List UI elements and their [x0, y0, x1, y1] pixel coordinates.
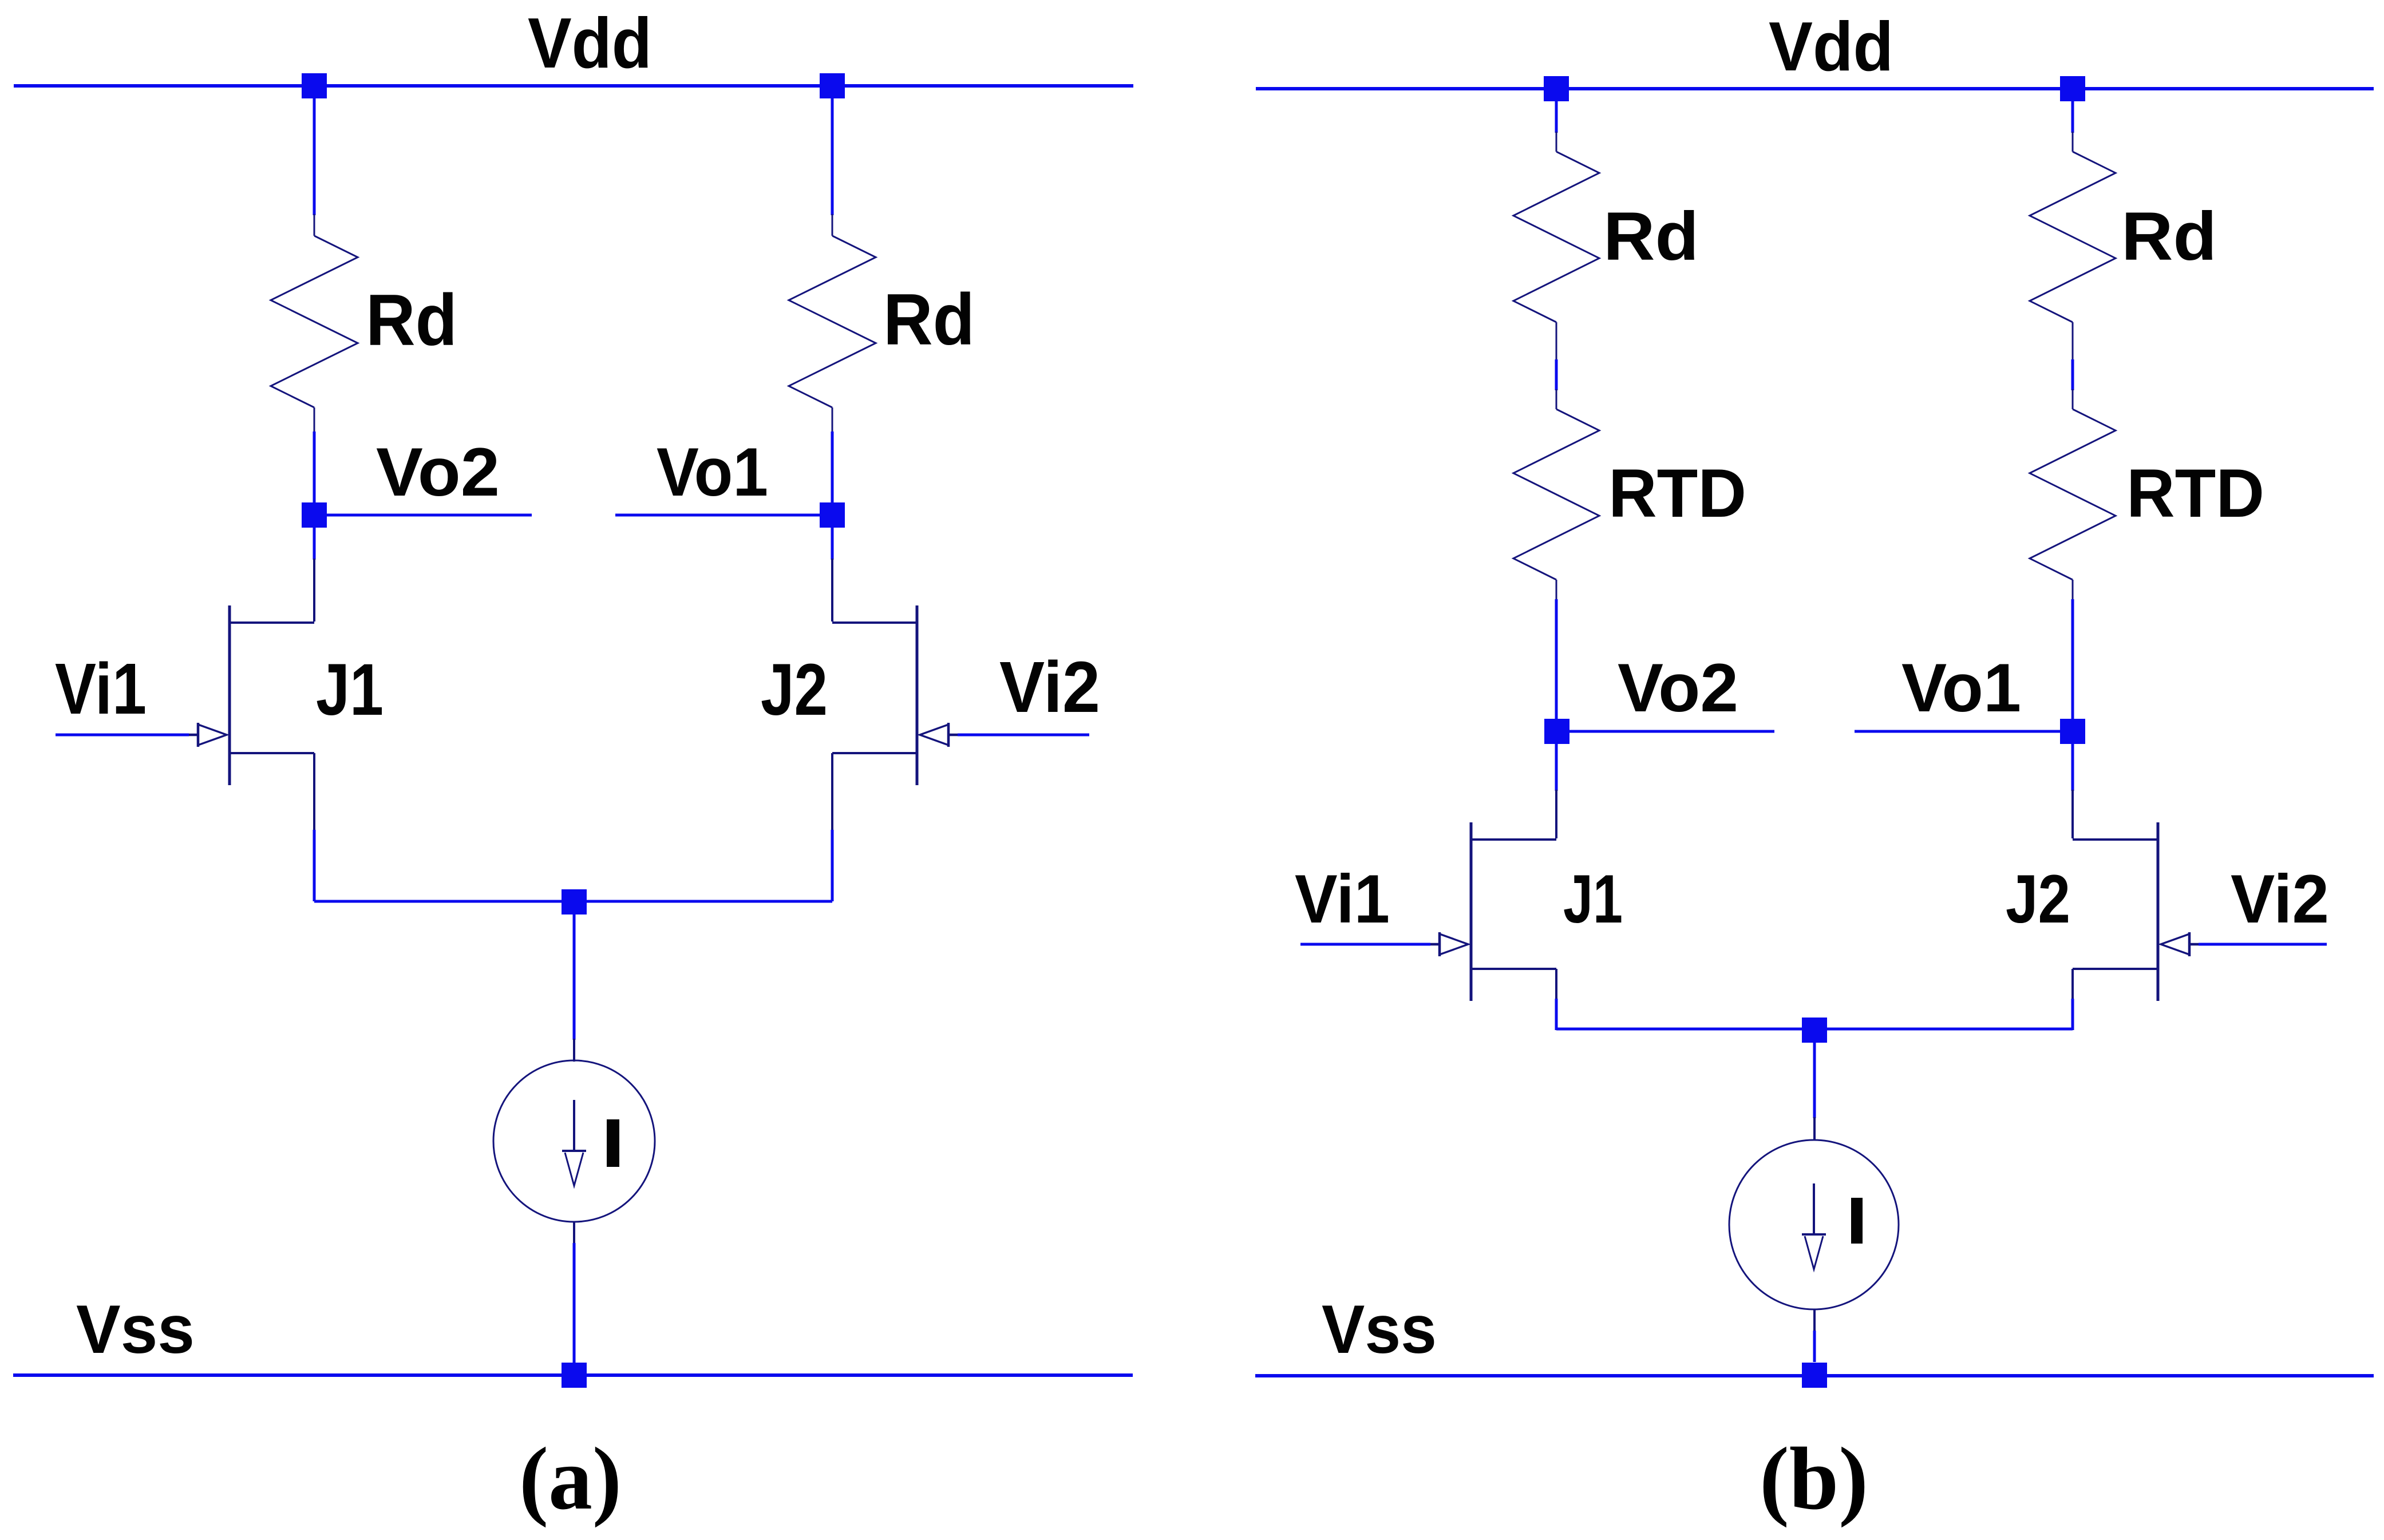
node Vo1 (b) — [2060, 719, 2085, 744]
source stub — [832, 752, 917, 754]
wire source J1 (a) — [313, 753, 315, 831]
node Vdd right (b) — [2060, 76, 2085, 101]
gate arrow — [198, 725, 227, 745]
svg-text:Vi1: Vi1 — [55, 648, 147, 729]
svg-text:Vss: Vss — [76, 1291, 195, 1368]
wire drain J1 (a) — [313, 528, 316, 560]
svg-text:Vdd: Vdd — [1769, 7, 1893, 85]
resistor Rd left (b) — [1556, 132, 1557, 152]
wire Vo2 stub (a) — [327, 514, 532, 517]
channel bar — [1470, 822, 1473, 1001]
wire — [831, 431, 834, 503]
wire — [573, 1222, 575, 1244]
wire — [1813, 1043, 1816, 1118]
wire drain J2 (a) — [831, 528, 834, 560]
node common source (a) — [562, 889, 587, 915]
svg-text:Vo1: Vo1 — [657, 434, 768, 510]
svg-text:RTD: RTD — [1608, 455, 1746, 532]
svg-text:Rd: Rd — [2121, 198, 2217, 275]
Vdd rail (a) — [14, 84, 1133, 88]
wire source J2 (b) — [2071, 969, 2074, 1000]
svg-text:J1: J1 — [316, 649, 384, 731]
svg-text:Vi2: Vi2 — [999, 647, 1100, 727]
wire — [2071, 359, 2074, 390]
drain stub — [2073, 838, 2158, 841]
drain stub — [832, 621, 917, 624]
wire common source (a) — [314, 900, 832, 903]
wire — [2071, 101, 2074, 133]
gate lead — [1430, 943, 1440, 946]
channel bar — [228, 605, 231, 785]
wire — [313, 431, 316, 503]
svg-text:(b): (b) — [1760, 1429, 1868, 1528]
svg-text:J1: J1 — [1563, 861, 1623, 937]
svg-text:(a): (a) — [519, 1429, 622, 1528]
wire — [313, 98, 316, 215]
wire — [2071, 599, 2074, 719]
wire — [573, 915, 576, 1040]
svg-text:Vss: Vss — [1322, 1291, 1437, 1368]
node Vo2 (b) — [1544, 719, 1569, 744]
svg-text:Vdd: Vdd — [528, 4, 652, 83]
resistor Rd right (b) — [2072, 132, 2074, 152]
svg-text:Vi2: Vi2 — [2231, 861, 2329, 937]
label I (b) — [1851, 1198, 1863, 1244]
gate arrow — [1440, 934, 1468, 955]
current source arrow — [573, 1100, 575, 1151]
gate arrow — [920, 725, 948, 745]
current source circle — [1729, 1140, 1899, 1309]
channel bar — [916, 605, 919, 785]
Vdd rail (b) — [1256, 87, 2374, 90]
wire drain J1 (b) — [1555, 744, 1558, 791]
node Vdd-Rd right (a) — [820, 73, 845, 98]
wire drain J2 (b) — [2071, 744, 2074, 791]
svg-text:Vo2: Vo2 — [376, 434, 500, 510]
svg-text:Rd: Rd — [1603, 198, 1699, 275]
Vss rail (a) — [13, 1373, 1133, 1377]
current source circle — [493, 1060, 655, 1222]
wire Vo2 stub (b) — [1569, 730, 1774, 733]
node Vss (a) — [562, 1363, 587, 1388]
node Vss (b) — [1802, 1363, 1827, 1388]
source stub — [1471, 968, 1556, 970]
wire Vi1 (b) — [1300, 943, 1430, 946]
resistor RTD right (b) — [2072, 389, 2074, 409]
wire — [831, 98, 834, 215]
node Vo2 (a) — [302, 502, 327, 528]
wire — [1555, 599, 1558, 719]
node Vdd left (b) — [1544, 76, 1569, 101]
svg-text:Vo2: Vo2 — [1618, 650, 1738, 726]
node Vo1 (a) — [820, 502, 845, 528]
node Vdd-Rd left (a) — [302, 73, 327, 98]
svg-text:Rd: Rd — [366, 279, 457, 361]
gate lead — [2189, 943, 2199, 946]
wire Vo1 stub (b) — [1855, 730, 2060, 733]
source stub — [230, 752, 314, 754]
svg-text:Rd: Rd — [883, 279, 975, 360]
node common source (b) — [1802, 1018, 1827, 1043]
channel bar — [2157, 822, 2160, 1001]
svg-text:Vo1: Vo1 — [1901, 650, 2021, 726]
source stub — [2073, 968, 2158, 970]
gate arrow — [2161, 934, 2189, 955]
wire common source (b) — [1556, 1028, 2073, 1031]
wire Vo1 stub (a) — [615, 514, 820, 517]
gate lead — [188, 734, 198, 737]
svg-text:Vi1: Vi1 — [1295, 861, 1390, 937]
label I (a) — [607, 1119, 619, 1167]
wire — [1813, 1309, 1816, 1332]
drain stub — [1471, 838, 1556, 841]
resistor RTD left (b) — [1556, 389, 1557, 409]
wire — [1555, 359, 1558, 390]
svg-text:J2: J2 — [2006, 861, 2070, 937]
Vss rail (b) — [1255, 1374, 2374, 1377]
wire source J1 (b) — [1555, 969, 1557, 1000]
gate lead — [948, 734, 958, 737]
svg-text:RTD: RTD — [2126, 455, 2264, 532]
drain stub — [230, 621, 314, 624]
wire Vi1 (a) — [56, 734, 189, 737]
resistor Rd left (a) — [314, 214, 315, 236]
wire Vi2 (b) — [2199, 943, 2327, 946]
resistor Rd right (a) — [832, 214, 833, 236]
wire — [1555, 101, 1558, 133]
svg-text:J2: J2 — [761, 649, 828, 731]
wire source J2 (a) — [831, 753, 833, 831]
current source arrow — [1813, 1183, 1815, 1234]
wire Vi2 (a) — [958, 734, 1089, 737]
